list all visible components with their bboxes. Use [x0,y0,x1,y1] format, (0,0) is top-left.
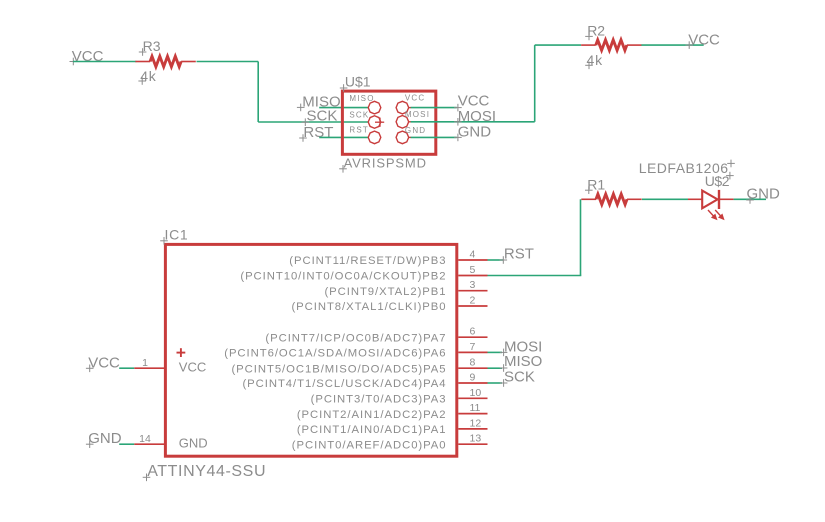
svg-text:ATTINY44-SSU: ATTINY44-SSU [147,463,266,480]
net label VCC (top right) [685,31,720,49]
net label GND (right of LED) [746,186,780,204]
net label MOSI (right of U$1) [454,108,496,126]
U$1 pad GND [396,131,411,144]
U$1 pad VCC [396,101,411,114]
svg-text:GND: GND [747,186,781,203]
label IC1 [160,227,188,245]
wire VCC to IC1 pin 1 [119,367,134,369]
svg-text:7: 7 [470,341,476,353]
wire R1 to LED [642,198,688,200]
LED U$2 (LEDFAB1206) [688,190,734,220]
wire IC1 pin5 east [488,275,582,277]
svg-text:14: 14 [139,433,151,445]
svg-text:RST: RST [504,246,534,263]
resistor R1 [581,194,641,204]
wire IC1 pin 7 to MOSI [488,351,503,353]
wire IC1 pin 4 to RST [488,259,504,261]
wire VCC to R3 [73,61,136,63]
svg-text:9: 9 [470,372,476,384]
svg-text:(PCINT5/OC1B/MISO/DO/ADC5)PA5: (PCINT5/OC1B/MISO/DO/ADC5)PA5 [231,363,446,375]
svg-text:RST: RST [349,126,369,135]
IC1 pin 2 stub [458,305,487,307]
wire to U$1 SCK pad [258,121,368,123]
wire RST to U$1 pad [319,136,368,138]
symbol origin cross (red) at SCK pad [375,118,384,127]
net label RST (at IC1 pin 4) [500,246,534,264]
U$1 pad MISO [368,101,381,114]
connector U$1 AVRISPSMD outline [342,91,435,154]
value 4k (R2) [585,52,603,69]
svg-text:SCK: SCK [349,110,369,119]
svg-text:(PCINT6/OC1A/SDA/MOSI/ADC6)PA6: (PCINT6/OC1A/SDA/MOSI/ADC6)PA6 [224,348,446,360]
wire GND to IC1 pin 14 [119,443,134,445]
label U$1 [340,73,371,92]
svg-text:R2: R2 [587,22,605,38]
IC1 pin 4 stub [458,259,487,261]
IC IC1 ATTINY44-SSU outline [165,244,456,456]
svg-text:8: 8 [470,357,476,369]
net label MOSI (at IC1 pin 7) [500,339,543,357]
U$1 pad RST [368,131,381,144]
label U$2 [705,172,734,189]
svg-text:(PCINT0/AREF/ADC0)PA0: (PCINT0/AREF/ADC0)PA0 [292,439,447,451]
net label VCC (left of IC1) [86,355,120,373]
svg-text:IC1: IC1 [165,227,189,243]
wire IC1 pin 9 to SCK [488,382,503,384]
svg-text:GND: GND [88,430,122,447]
svg-text:GND: GND [458,124,492,141]
svg-text:11: 11 [470,402,481,414]
svg-text:GND: GND [179,436,208,451]
wire U$1 GND pad east [411,136,457,138]
svg-text:2: 2 [470,295,476,307]
net label SCK (at IC1 pin 9) [500,369,535,387]
resistor R2 [581,40,641,50]
svg-text:12: 12 [470,417,482,429]
IC1 pin 12 stub [458,428,487,430]
IC1 pin 11 stub [458,413,487,415]
net label GND (left of IC1) [86,430,122,448]
svg-text:4k: 4k [587,52,604,68]
IC1 pin 6 stub [458,336,487,338]
net label VCC (right of U$1) [454,93,489,112]
svg-text:(PCINT4/T1/SCL/USCK/ADC4)PA4: (PCINT4/T1/SCL/USCK/ADC4)PA4 [242,378,446,390]
svg-text:(PCINT1/AIN0/ADC1)PA1: (PCINT1/AIN0/ADC1)PA1 [297,424,447,436]
U$1 pad MOSI [396,116,411,129]
U$1 pad SCK [368,116,381,129]
svg-text:5: 5 [470,264,476,276]
wire vertical down to SCK row [257,62,259,123]
svg-text:U$2: U$2 [705,173,730,189]
wire vertical up to R2 [534,45,536,122]
svg-text:SCK: SCK [307,108,338,125]
value ATTINY44-SSU [143,463,266,481]
svg-text:R3: R3 [143,38,161,54]
svg-text:VCC: VCC [688,31,720,48]
wire vertical up to R1 [580,199,582,275]
label R3 [139,38,161,56]
svg-text:(PCINT9/XTAL2)PB1: (PCINT9/XTAL2)PB1 [324,286,446,298]
svg-text:6: 6 [470,326,476,338]
net label GND (right of U$1) [454,124,491,142]
svg-text:(PCINT10/INT0/OC0A/CKOUT)PB2: (PCINT10/INT0/OC0A/CKOUT)PB2 [240,271,446,283]
svg-text:13: 13 [470,433,482,445]
net label VCC (top left) [70,48,104,66]
net label SCK (left of U$1) [302,108,338,126]
wire U$1 MOSI pad to R2 branch [411,121,535,123]
svg-text:3: 3 [470,279,476,291]
IC1 pin 9 stub [458,382,487,384]
IC1 pin 3 stub [458,290,487,292]
value 4k (R3) [138,68,156,85]
svg-text:R1: R1 [587,177,605,193]
net label MISO (at IC1 pin 8) [500,353,543,372]
net label MISO (left of U$1) [297,93,341,111]
IC1 pin 8 stub [458,367,487,369]
svg-text:VCC: VCC [179,359,206,374]
IC1 pin 14 stub (GND) [134,443,165,445]
svg-text:AVRISPSMD: AVRISPSMD [344,155,427,170]
wire IC1 pin 8 to MISO [488,367,503,369]
svg-text:MOSI: MOSI [405,110,430,119]
net label RST (left of U$1) [299,124,333,142]
IC1 power pin marker + [177,348,186,357]
svg-text:VCC: VCC [405,94,426,103]
svg-text:1: 1 [142,357,148,369]
svg-text:RST: RST [303,124,333,141]
svg-text:(PCINT11/RESET/DW)PB3: (PCINT11/RESET/DW)PB3 [289,255,446,267]
value AVRISPSMD [339,155,427,172]
wire MISO to U$1 pad [319,107,368,109]
svg-text:GND: GND [405,126,426,135]
wire R3 east [197,61,259,63]
label R1 [585,177,605,195]
svg-text:VCC: VCC [88,355,120,372]
svg-text:(PCINT8/XTAL1/CLKI)PB0: (PCINT8/XTAL1/CLKI)PB0 [291,301,446,313]
svg-text:SCK: SCK [504,369,535,386]
svg-text:10: 10 [470,387,482,399]
resistor R3 [135,56,195,66]
wire R2 east to VCC [641,44,703,46]
svg-text:4: 4 [470,249,476,261]
svg-text:MOSI: MOSI [458,108,496,125]
svg-text:(PCINT7/ICP/OC0B/ADC7)PA7: (PCINT7/ICP/OC0B/ADC7)PA7 [265,332,446,344]
IC1 pin 10 stub [458,397,487,399]
wire U$1 VCC pad east [411,107,457,109]
svg-text:(PCINT2/AIN1/ADC2)PA2: (PCINT2/AIN1/ADC2)PA2 [297,409,447,421]
svg-text:(PCINT3/T0/ADC3)PA3: (PCINT3/T0/ADC3)PA3 [311,394,447,406]
IC1 pin 5 stub [458,275,487,277]
IC1 pin 13 stub [458,443,487,445]
label R2 [585,22,605,40]
wire to R2 west [535,44,581,46]
IC1 pin 1 stub (VCC) [134,367,165,369]
svg-text:U$1: U$1 [345,73,371,89]
svg-text:4k: 4k [140,68,157,84]
wire LED to GND [734,198,766,200]
IC1 pin 7 stub [458,351,487,353]
svg-text:MISO: MISO [349,94,374,103]
label LEDFAB1206 [639,160,735,176]
